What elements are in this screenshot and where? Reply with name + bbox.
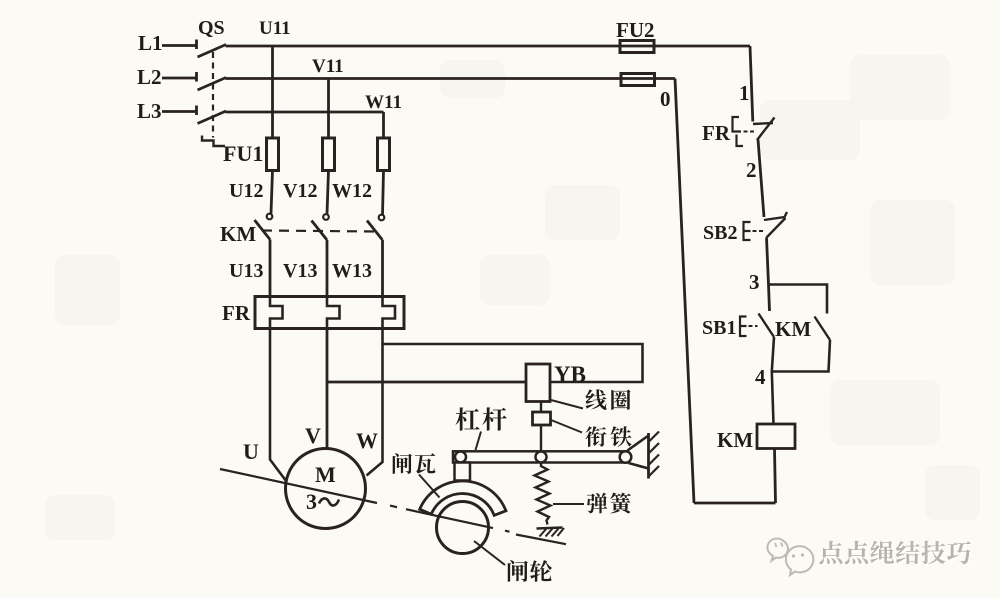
svg-text:3: 3 [306,489,317,514]
label xianquan (coil) [585,389,630,410]
wire W13 seg [381,240,384,297]
wire L3 lead [162,110,196,113]
svg-text:V12: V12 [283,180,317,202]
FR heater W [383,297,396,329]
wire W12 seg [383,171,384,215]
axis dot 2 [505,531,510,532]
lever pivot mid [536,452,547,463]
svg-text:0: 0 [660,87,671,111]
svg-text:2: 2 [746,158,757,182]
contact KM aux blade [815,317,831,341]
support hatch 4 [649,466,660,477]
watermark icon bubbles [767,539,813,575]
svg-text:U11: U11 [259,18,291,39]
svg-text:L1: L1 [138,31,163,55]
fuse FU1 phase V [323,138,335,171]
wire V13 seg [326,240,329,297]
watermark text dian dian sheng jie ji qiao [819,541,972,566]
svg-text:W12: W12 [332,180,372,202]
svg-text:U13: U13 [229,260,263,282]
button SB1 blade [759,314,775,338]
QS fixed contact L3 [195,106,198,116]
brake wheel circle [437,502,489,554]
FR trip dash [744,131,756,133]
motor M circle [286,449,366,529]
leader zhawa [419,475,440,498]
axis dash 2 [516,535,566,545]
armature rect [533,412,551,425]
SB1 dash [749,325,758,327]
fuse FU1 phase W [378,138,390,171]
lever pivot left [455,452,466,463]
wire L1 bus [226,45,751,48]
label xiantie (armature) [585,426,631,447]
switch QS blade L3 [198,111,227,124]
svg-text:FR: FR [222,301,251,325]
lever pivot right [620,451,632,463]
leader xianquan [551,400,583,409]
leader xiantie [551,420,582,433]
spring [535,463,551,525]
wire L2 bus [226,77,676,80]
contactor KM contact circle V [323,214,329,220]
support triangle bottom [629,463,649,469]
wire coil bottom [775,449,776,504]
wire V11 drop [327,79,330,139]
fuse FU1 phase U [267,138,279,171]
KM linkage dashed [262,231,378,232]
wire V to coil [327,381,526,384]
switch QS blade L1 [198,45,227,58]
wire node3 seg [767,238,769,285]
shoe link [455,463,471,481]
switch QS blade L2 [198,78,227,91]
relay FR NC blade [757,118,775,141]
label zhawa (brake shoe) [393,453,436,474]
wire U to motor [270,329,287,482]
wire bottom return [694,502,776,505]
svg-text:KM: KM [775,317,811,341]
wire L2 lead [162,77,196,80]
wire SB1 top [769,285,770,312]
anchor hatch 1 [540,529,547,537]
svg-text:SB2: SB2 [703,222,737,244]
FR heater V [327,297,340,329]
svg-text:QS: QS [198,17,225,39]
svg-text:V13: V13 [283,260,317,282]
coil KM rect [757,424,795,449]
lever bar [453,451,627,462]
support hatch 3 [649,455,660,466]
brake shoe arc [420,481,506,515]
FR trip bracket lower [737,135,744,147]
svg-text:U12: U12 [229,180,263,202]
wire U12 seg [271,171,273,214]
anchor hatch 2 [546,529,553,537]
svg-text:SB1: SB1 [702,317,736,339]
leader zhalun [474,541,505,565]
wire U13 seg [269,240,272,298]
button SB2 bar [764,212,787,220]
contactor KM contact circle U [267,214,273,220]
label ganggan (lever) [456,407,507,430]
SB2 dash [753,230,764,232]
wire node1 seg [750,46,753,122]
leader ganggan [476,432,482,451]
label zhalun (brake wheel) [508,560,552,582]
relay FR NC bar [753,123,773,124]
spring anchor line [537,528,563,529]
FR trip bracket upper [733,117,742,132]
svg-text:W: W [356,428,378,453]
contactor KM contact circle W [379,215,385,221]
wire W to motor [367,329,383,476]
link coil-armature [540,402,542,413]
support hatch 1 [649,432,660,443]
axis dash through wheel [430,514,493,528]
label tanhuang (spring) [587,493,631,514]
link armature-lever [540,425,542,451]
wire U11 drop [271,46,274,138]
svg-text:FU1: FU1 [223,141,263,166]
QS fixed contact L1 [195,40,198,50]
svg-text:KM: KM [717,428,753,452]
relay FR box [255,297,404,329]
svg-text:FU2: FU2 [616,18,655,42]
support triangle top [628,436,649,451]
QS handle [202,136,225,147]
svg-text:L3: L3 [137,99,162,123]
contactor KM blade W [367,221,383,241]
svg-text:L2: L2 [137,65,162,89]
svg-text:V: V [305,423,321,448]
wire node4 seg [772,337,774,424]
axis line solid [220,469,377,503]
svg-text:4: 4 [755,365,766,389]
wire node2 seg [758,140,764,218]
svg-text:YB: YB [554,362,586,387]
fuse FU2 lower [621,74,655,86]
svg-text:M: M [315,462,336,487]
wire L1 lead [162,44,196,47]
wire V to motor [326,329,329,449]
wire V12 seg [327,171,329,215]
svg-text:U: U [243,439,259,464]
anchor hatch 4 [558,528,565,536]
svg-text:W11: W11 [365,92,402,113]
axis dash 1 [406,509,430,514]
anchor hatch 3 [552,529,559,537]
svg-text:FR: FR [702,121,731,145]
wire node3 branch [769,285,828,314]
wire KM aux lower [772,340,830,372]
svg-text:1: 1 [739,81,750,105]
support wall [647,433,650,479]
QS linkage dashed [212,52,214,138]
wire W to brake loop [383,344,643,382]
contactor KM blade U [255,220,271,240]
contactor KM blade V [312,221,328,241]
leader tanhuang [553,503,584,505]
support hatch 2 [649,443,660,454]
FR heater U [270,297,283,329]
axis dot 1 [390,506,397,508]
svg-text:W13: W13 [332,260,372,282]
svg-text:V11: V11 [312,56,344,77]
coil YB rect [526,364,550,402]
SB2 actuator [744,222,751,240]
wire L3 bus [226,111,384,114]
svg-text:KM: KM [220,222,256,246]
SB1 actuator [740,317,747,337]
button SB2 blade [767,218,786,238]
wire W11 drop [382,112,385,138]
wire 0 line [675,79,694,504]
fuse FU2 upper [620,41,654,53]
QS fixed contact L2 [195,72,198,82]
svg-text:3: 3 [749,270,760,294]
